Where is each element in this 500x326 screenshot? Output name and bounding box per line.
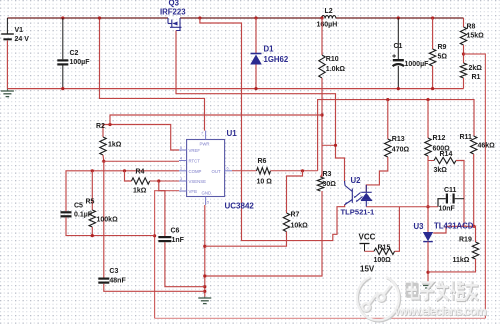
junction feedback / C5-R5 line [153,234,156,237]
junction TL431 anode / R19 bottom line [426,271,429,274]
ground (U1) [204,297,206,298]
wire ground bus [7,88,463,90]
junction gnd chain / C6 line [203,285,206,288]
wire R2 bottom to U1 RTCT [104,160,179,162]
wire 24V to U1 VCC [100,18,205,131]
resistor R6 zigzag [257,168,271,174]
svg-text:100µF: 100µF [70,59,91,66]
svg-text:470Ω: 470Ω [392,147,410,154]
junction R8/R1 divider [462,52,465,55]
junction Q3 source / rail [198,16,201,19]
U1 pin 3 VSENSE [179,180,187,182]
capacitor C1 1000uF polarized [397,18,399,59]
junction track / R12 [426,98,429,101]
svg-text:C1: C1 [394,43,403,50]
diode D1 1GH62 [255,18,257,53]
svg-text:COMP: COMP [189,169,202,174]
svg-text:100kΩ: 100kΩ [97,217,119,224]
svg-text:1nF: 1nF [172,237,185,244]
svg-text:2: 2 [180,187,182,191]
op-amp U1 UC3842 PWM controller [187,140,225,197]
junction R2 bottom / C3 drop [102,160,105,163]
svg-text:R5: R5 [86,199,95,206]
svg-text:GND.: GND. [202,191,213,196]
resistor R15 zigzag [374,248,395,254]
wire OUT to R6 [232,170,257,172]
wire R12 node to R14 [428,160,434,162]
svg-text:48nF: 48nF [109,278,126,285]
svg-text:R14: R14 [440,151,453,158]
capacitor C2 100uF [62,18,64,59]
junction REF node [472,225,475,228]
op-amp U2 TLP521-1 optocoupler [345,181,373,207]
svg-text:R9: R9 [438,44,447,51]
wire top rail mid (Q3 source to L2) [180,17,322,19]
svg-text:3: 3 [180,177,182,181]
svg-text:R6: R6 [258,158,267,165]
svg-text:1: 1 [180,167,182,171]
svg-text:2kΩ: 2kΩ [469,65,483,72]
svg-text:R7: R7 [291,212,300,219]
svg-text:R1: R1 [472,74,481,81]
svg-text:U3: U3 [414,222,425,231]
junction top rail / C2 [61,16,64,19]
svg-text:5: 5 [207,201,209,205]
junction gnd chain / C3 line [203,290,206,293]
svg-text:7: 7 [201,132,203,136]
junction ground bus / R9 [431,87,434,90]
svg-text:C6: C6 [171,228,180,235]
watermark text elecfans [407,282,478,301]
junction gnd chain / R3 line [203,274,206,277]
svg-text:10kΩ: 10kΩ [291,223,309,230]
svg-text:L2: L2 [325,8,333,15]
svg-text:5Ω: 5Ω [438,54,448,61]
wire source sense loop to U2 emitter [200,18,345,241]
capacitor C2 plates [57,59,68,61]
resistor R13 zigzag [385,139,391,157]
wire R6 to OUT node [271,170,318,172]
svg-text:1.0kΩ: 1.0kΩ [326,66,346,73]
wire R2 top to U1 VREF [103,125,179,151]
wire TL431 REF to node [433,226,474,233]
junction COMP line / R5 [91,169,94,172]
ground (battery) [6,89,8,91]
junction R6 line / R7 tap [301,169,304,172]
junction C5 line / R5 bottom [91,234,94,237]
junction rail / R9 [431,16,434,19]
watermark logo elecfans [357,277,400,321]
svg-text:R13: R13 [392,136,405,143]
svg-text:R8: R8 [467,24,476,31]
junction ground bus / C1 [397,87,400,90]
wire top rail left (V1 to Q3 drain) [7,17,168,19]
wire R10 bottom to R3 [321,78,323,177]
svg-text:VCC: VCC [359,233,376,242]
wire track to R10-R3 node [110,115,322,125]
svg-text:1GH62: 1GH62 [264,55,289,64]
wire C6 bottom to gnd chain [165,242,205,287]
wire feedback right drop [464,54,486,318]
svg-text:U2: U2 [351,176,362,185]
wire top rail right (L2 to R8) [336,17,464,19]
U1 pin 2 VFB [179,190,187,192]
U1 pin 6 OUT [225,170,232,172]
resistor R2 zigzag [100,137,106,155]
wire R15 to LED cathode line [395,207,400,252]
wire rail corner to R8 [463,18,465,27]
svg-text:1kΩ: 1kΩ [133,188,147,195]
svg-text:1kΩ: 1kΩ [108,142,122,149]
wire R12 bottom to TL431 cathode [427,156,429,232]
svg-text:D1: D1 [264,45,275,54]
svg-text:OUT: OUT [212,169,221,174]
wire C11 left to cathode node [438,199,446,207]
junction rail / L2 / R10 [320,16,323,19]
junction ground bus / C2 [61,87,64,90]
U1 pin 7 PWR [205,131,207,140]
U1 pin 5 GND [205,197,207,206]
svg-text:R10: R10 [326,56,339,63]
svg-text:TLP521-1: TLP521-1 [341,207,376,216]
wire REF node to R19 [474,226,476,242]
U1 pin 8 VREF [179,149,187,151]
svg-text:U1: U1 [227,129,238,138]
wire feedback to U1 VFB [155,191,179,319]
capacitor C5 0.1uF [61,211,72,213]
resistor R12 zigzag [425,138,431,156]
svg-text:UC3842: UC3842 [225,202,255,211]
svg-text:15V: 15V [360,265,375,274]
svg-text:0.1µF: 0.1µF [74,212,93,219]
wire feedback bottom run [155,317,486,319]
resistor R14 zigzag [434,157,456,163]
svg-text:VFB: VFB [189,189,197,194]
svg-text:30Ω: 30Ω [323,181,337,188]
ground (TL431) [423,285,433,287]
svg-text:1000µF: 1000µF [405,61,430,68]
wire LED cathode line [366,206,438,208]
junction R12 line / LED cathode line [426,205,429,208]
capacitor C6 1nF [158,236,171,238]
resistor R19 zigzag [472,242,478,259]
resistor R3 zigzag [317,177,323,191]
svg-text:C3: C3 [109,268,118,275]
svg-text:R2: R2 [96,123,105,130]
svg-text:R4: R4 [136,169,145,176]
wire Q3 gate to U2 collector [176,31,345,182]
resistor R10 zigzag [319,55,325,78]
wire VCC to R15 [365,250,375,252]
junction track / R13 [386,98,389,101]
svg-text:11kΩ: 11kΩ [453,257,470,264]
wire COMP to R4 [125,171,132,181]
wire R4 node to C6 [159,181,165,236]
svg-text:R3: R3 [323,171,332,178]
svg-text:8: 8 [180,146,182,150]
svg-text:46kΩ: 46kΩ [478,143,496,150]
svg-text:15kΩ: 15kΩ [467,33,485,40]
svg-text:www.elecfans.com: www.elecfans.com [394,304,487,318]
svg-text:3kΩ: 3kΩ [434,167,448,174]
wire C5/R5 bottoms to C6 node [66,217,155,235]
junction R2 top / track up [108,123,111,126]
U3 TL431ACD shunt regulator [423,232,433,241]
wire bridge to collector drop [322,144,336,146]
svg-text:RTCT: RTCT [189,159,201,164]
svg-text:R19: R19 [459,237,472,244]
resistor R11 zigzag [471,136,477,154]
wire C5 top to U1 COMP [66,171,179,211]
capacitor C3 48nF [98,278,109,280]
wire OUT node to R13/R12/R11 tops [318,100,474,171]
junction rail / C1 [397,16,400,19]
wire R7 bottom to gnd chain [205,232,287,247]
resistor R8 zigzag [460,27,466,45]
junction COMP line / R4 [123,169,126,172]
svg-text:VREF: VREF [189,148,201,153]
battery V1 24V [6,18,8,34]
junction ground bus / D1 [254,87,257,90]
resistor R7 zigzag [283,213,289,232]
svg-text:IRF223: IRF223 [160,7,186,16]
svg-text:R15: R15 [378,245,391,252]
svg-text:10nF: 10nF [439,206,456,213]
svg-text:C5: C5 [74,203,83,210]
junction top rail / D1 [254,16,257,19]
svg-text:6: 6 [227,166,229,170]
junction gnd chain / R7 line [203,245,206,248]
capacitor C11 10nF [446,194,448,204]
resistor R9 zigzag [429,49,435,66]
wire U1 GND down to ground [204,205,206,297]
U1 pin 4 RTCT [179,160,187,162]
svg-text:C11: C11 [444,187,457,194]
junction R10-R3 / R2 track [320,113,323,116]
svg-text:100Ω: 100Ω [374,257,392,264]
junction top rail / VCC feed [98,16,101,19]
wire R2 node down to C3 [103,161,105,277]
wire R13 to U2 LED anode [366,157,388,192]
wire C3 bottom to gnd chain [104,284,205,292]
resistor R4 zigzag [132,178,150,184]
junction collector drop [334,144,337,147]
junction R4 line / C6 drop [157,179,160,182]
svg-text:V1: V1 [15,27,24,34]
svg-text:PWR: PWR [200,142,210,147]
wire R3 bottom to U1 gnd node [205,191,322,276]
svg-text:R12: R12 [433,135,446,142]
inductor L2 160uH [322,16,326,19]
wire R6 node to R7 [287,171,303,213]
U1 pin 1 COMP [179,170,187,172]
svg-text:160µH: 160µH [317,22,338,29]
svg-text:VSENSE: VSENSE [189,179,207,184]
svg-text:C2: C2 [70,50,79,57]
svg-text:10 Ω: 10 Ω [257,179,273,186]
resistor R5 zigzag [89,210,95,227]
svg-text:TL431ACD: TL431ACD [434,221,474,230]
wire R4 to U1 VSENSE [150,180,179,182]
resistor R1 zigzag [460,63,466,78]
wire R19 bottom to TL431 anode [428,259,476,272]
wire R14 to REF node [456,161,464,227]
transistor Q3 IRF223 (p-MOSFET) [168,18,182,31]
VCC terminal 15V [360,243,370,245]
svg-text:R11: R11 [460,134,473,141]
svg-text:24 V: 24 V [15,36,30,43]
svg-text:4: 4 [180,156,182,160]
